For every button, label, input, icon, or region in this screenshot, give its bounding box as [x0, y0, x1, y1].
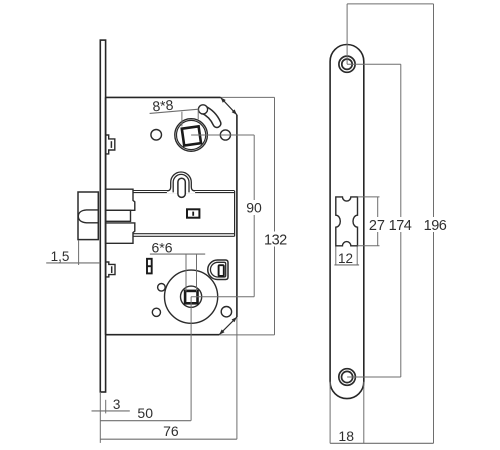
svg-text:12: 12: [338, 251, 353, 266]
svg-text:1,5: 1,5: [51, 249, 70, 264]
svg-text:3: 3: [113, 397, 121, 412]
small circle lower-left of lower spindle: [152, 308, 160, 316]
top ext line: [347, 3, 433, 5]
svg-text:196: 196: [424, 218, 447, 234]
174 dim line: [400, 64, 402, 377]
12 dim: [335, 247, 337, 266]
latch housing upper block: [106, 189, 135, 210]
small rect detail in middle plate: [187, 209, 199, 217]
132 dimension line: [274, 97, 276, 335]
keyhole tab inner outline: [173, 174, 189, 192]
latch shaft strip: [106, 210, 131, 221]
lock body left edge: [105, 97, 107, 334]
50 dim line: [100, 420, 191, 422]
top screw hole: [339, 56, 355, 72]
27 dim: [358, 196, 380, 198]
small circle upper-left of lower spindle: [158, 284, 166, 292]
label 8*8: [152, 97, 175, 115]
90 dimension line: [253, 135, 255, 297]
svg-text:132: 132: [264, 232, 287, 248]
svg-text:174: 174: [389, 218, 412, 234]
small circle right of upper spindle: [220, 130, 230, 140]
dim ext lines over lower spindle: [191, 296, 254, 298]
1,5 dim leader: [46, 262, 100, 264]
174 top ext: [347, 63, 401, 65]
extension line top to 132 dim: [221, 96, 275, 98]
upper spindle inner ring: [177, 120, 206, 149]
svg-text:6*6: 6*6: [151, 240, 172, 256]
upper spindle outer circle: [175, 119, 208, 152]
label 174: [389, 217, 413, 232]
banana arc slot: [203, 109, 217, 123]
svg-text:90: 90: [246, 200, 262, 216]
small circle lower-right of lower spindle: [221, 307, 231, 317]
latch bolt box: [78, 192, 98, 240]
lock body top edge: [106, 96, 221, 98]
label 196: [423, 217, 447, 232]
label 90: [245, 200, 264, 215]
latch cutout with notches: [336, 197, 358, 246]
mounting tab lower: [106, 262, 115, 277]
196 dim line: [433, 4, 435, 443]
dim ext line from upper square to 90 line: [191, 134, 254, 136]
lower spindle 6x6 square: [185, 291, 197, 303]
top-right chamfer with arrows: [221, 97, 237, 114]
svg-text:18: 18: [338, 428, 354, 444]
bottom-right chamfer with arrows: [219, 317, 237, 335]
76 dim line: [100, 438, 237, 440]
6*6 leader line: [150, 253, 205, 255]
svg-text:27: 27: [369, 218, 385, 234]
lock body bottom edge: [106, 334, 220, 336]
svg-text:76: 76: [163, 423, 179, 439]
latch bolt bevel nose: [78, 210, 98, 223]
pin detail: [147, 259, 152, 274]
lower spindle big circle: [165, 270, 218, 323]
plate outline: [330, 45, 364, 399]
keyhole capsule slot: [178, 178, 185, 197]
banana end hole circle: [198, 105, 207, 114]
D-shaped stopper outer: [208, 260, 228, 280]
bottom screw hole: [339, 369, 356, 386]
plate side extensions: [329, 382, 331, 444]
8*8 slanted leader line: [150, 109, 199, 113]
D-shaped stopper slot: [219, 265, 224, 276]
upper spindle 8x8 square: [182, 126, 201, 145]
svg-text:50: 50: [137, 405, 153, 421]
lower spindle inner circle: [181, 286, 202, 307]
label 27: [368, 217, 386, 232]
3 dim: [92, 410, 130, 412]
svg-text:8*8: 8*8: [152, 97, 175, 115]
extension line right edge down to 76 dim: [236, 317, 238, 439]
latch housing lower block: [106, 223, 135, 243]
keyhole tab white mask: [167, 172, 195, 193]
label 132: [264, 232, 288, 247]
middle plate top flange double line: [134, 190, 235, 192]
mounting tab upper: [106, 135, 115, 154]
middle plate right edge: [234, 191, 236, 236]
D-shaped stopper inner: [210, 262, 225, 277]
keyhole tab outer outline: [167, 172, 195, 191]
faceplate side view: [100, 40, 105, 392]
lock body right edge: [236, 115, 238, 317]
bottom dim line: [330, 442, 433, 444]
174 bottom ext: [347, 376, 401, 378]
small circle left of upper spindle: [151, 130, 162, 141]
centerline to top screw: [346, 4, 348, 64]
middle plate bottom flange double line: [134, 233, 235, 235]
extension line bottom to 132 dim: [219, 334, 274, 336]
8*8 extension ticks: [181, 112, 183, 127]
